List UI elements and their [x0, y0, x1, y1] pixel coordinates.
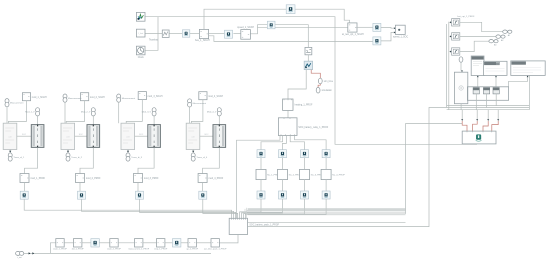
svg-text:Nu_4_PROF: Nu_4_PROF [332, 175, 345, 177]
svg-text:Tmax_di_1: Tmax_di_1 [13, 157, 25, 159]
wire bottom chain segment 3 [99, 242, 110, 244]
unit delay block small [305, 47, 312, 54]
wire measurement oval down [189, 107, 191, 123]
module 1 Tmax oval pair [8, 153, 12, 158]
svg-text:cell: cell [8, 137, 12, 139]
module 3 voltage oval [152, 108, 156, 113]
subsystem speed_1_SOAH [241, 30, 251, 40]
scope block 2 colored [304, 61, 312, 69]
bottom chain block rt_1 [173, 239, 181, 247]
wire input tap to chain [50, 243, 55, 254]
wire lower branch [209, 36, 373, 42]
rate transition block 2 [225, 30, 233, 38]
svg-text:at_rest_cpt_1_SOAH: at_rest_cpt_1_SOAH [342, 33, 364, 36]
wire bottom chain segment 2 [82, 242, 91, 244]
grid rate transition top 3 [301, 150, 309, 158]
wire cell to bottom oval [9, 150, 11, 154]
wire relay to col3 [290, 136, 304, 150]
wire grid col1 teal-top to mid [260, 158, 262, 170]
cell cylinder 2 [483, 88, 489, 94]
wire grid col3 to bundle [244, 199, 305, 218]
wire container to scope panel [495, 77, 497, 87]
cell cylinder 1 [473, 88, 479, 94]
wire clock branch vertical [145, 17, 158, 51]
module 4 battery image block [213, 125, 226, 148]
grid mid block 2 [278, 169, 288, 179]
arrowhead up scope [495, 76, 497, 78]
wire voltage oval down [92, 116, 94, 125]
subsystem bus_1_SOAH [199, 29, 208, 38]
wire pack drop 2 [476, 110, 478, 120]
svg-text:step_1_PROF: step_1_PROF [154, 248, 168, 251]
svg-text:I_bat: I_bat [138, 32, 144, 35]
module 3 cell subsystem [121, 123, 135, 149]
wire module1 to bus bundle [24, 199, 231, 218]
wire battery to module block [138, 147, 154, 173]
sum block speed_1_SOC [395, 25, 405, 34]
wire bundle right 2 [247, 211, 406, 213]
wire right riser to pack [406, 124, 463, 214]
wire source chain [145, 33, 162, 35]
svg-text:mod_1_SOAH: mod_1_SOAH [32, 96, 47, 99]
module 3 top block [138, 92, 146, 100]
wire grid col4 mid to teal-bottom [325, 180, 327, 191]
pack input oval [459, 57, 463, 62]
svg-text:mod_3_PROF: mod_3_PROF [144, 178, 159, 180]
svg-text:mod_2_PROF: mod_2_PROF [86, 178, 101, 180]
goto tag pair 2 [496, 35, 501, 38]
wire cell to battery image [17, 135, 32, 137]
wire bottom chain segment 1 [64, 242, 73, 244]
red hook 2 [473, 121, 478, 131]
wire grid col1 to bundle [240, 199, 261, 218]
subsystem at_rest_cpt_1_SOAH [348, 23, 357, 32]
wire grid col4 to bundle [245, 199, 326, 218]
svg-text:cell: cell [126, 137, 130, 139]
svg-text:out_time_pack_1_PROF: out_time_pack_1_PROF [204, 248, 227, 251]
svg-text:state_1_PROF: state_1_PROF [53, 248, 67, 251]
wire pack drop 4 [497, 110, 499, 120]
wire module block to rate [202, 183, 204, 192]
wire rate to vertical chain [275, 25, 308, 48]
wire grid col3 mid to teal-bottom [304, 180, 306, 191]
grid rate transition top 4 [322, 150, 330, 158]
scope panel block [484, 61, 508, 75]
wire module3 to bus bundle [140, 199, 236, 218]
subsystem SOC_battery_relay_1_PROF [278, 118, 297, 136]
module 4 cell subsystem [186, 123, 200, 149]
cell cylinder 3 [493, 88, 499, 94]
svg-text:mod_3_SOAH: mod_3_SOAH [148, 95, 163, 98]
rate transition block 5 [373, 23, 381, 31]
wire module block to rate [79, 183, 81, 192]
red hook 4 [492, 121, 498, 131]
arrowhead up display [527, 76, 529, 78]
wire module block to rate [137, 183, 139, 192]
wire pack input rail [448, 22, 450, 110]
wire bottom chain segment 5 [143, 242, 157, 244]
module 4 top block [199, 92, 207, 100]
rate transition block 1 [182, 30, 189, 37]
red hook 1 [462, 121, 467, 131]
integrator block 3 [452, 48, 460, 55]
wire voltage oval down [218, 116, 220, 125]
pack bottom rail 1 [447, 105, 530, 107]
svg-text:heating_1_PROF: heating_1_PROF [295, 104, 313, 107]
rate transition block 4 on top wire [286, 5, 295, 14]
wire voltage oval down [153, 116, 155, 125]
wire chain end to bus creator [219, 235, 238, 243]
svg-text:SOC_battery_pack_1_PROF: SOC_battery_pack_1_PROF [249, 224, 279, 227]
svg-text:Mod_2_V: Mod_2_V [81, 112, 91, 114]
wire chain bus block to gain [209, 33, 225, 35]
grid mid block 3 [300, 169, 310, 179]
simulation oval [316, 87, 320, 93]
svg-text:Tmax_di_2: Tmax_di_2 [71, 157, 83, 159]
wire grid col2 mid to teal-bottom [282, 180, 284, 191]
module 2 output block [76, 174, 85, 183]
module 3 Tmax oval pair [126, 153, 130, 158]
wire chain lookup to bus block [190, 33, 200, 35]
clock block [136, 46, 145, 55]
wire integrator2 to goto [460, 35, 496, 37]
svg-text:simulation: simulation [322, 89, 333, 92]
wire relay to col1 [261, 136, 283, 150]
wire rate5 to sum [381, 26, 394, 29]
arrowhead pack drop 3 [487, 119, 489, 121]
goto tag pair 1 [503, 30, 508, 33]
wire chain gain to speed block [233, 33, 240, 35]
grid rate transition bottom 3 [301, 191, 309, 199]
grid mid block 4 [321, 169, 331, 179]
svg-text:bat_cpt_1_PROF: bat_cpt_1_PROF [458, 15, 476, 18]
module 1 battery image block [31, 125, 44, 148]
wire module block to rate [24, 183, 26, 192]
svg-text:del_1_PROF: del_1_PROF [72, 249, 85, 251]
wire measurement oval down [118, 102, 120, 123]
wire battery to module block [80, 147, 93, 173]
display panel block [511, 61, 545, 76]
wire bundle right 0b [248, 208, 406, 210]
pack right rail [528, 75, 530, 109]
wire oval to tall model [460, 62, 462, 70]
wire container to info block [477, 77, 479, 87]
wire bottom chain segment 7 [181, 242, 188, 244]
wire pack drop 1 [461, 110, 463, 120]
wire pack drop 3 [487, 110, 489, 120]
cell container box [467, 87, 508, 101]
module 2 Tmax oval pair [66, 153, 70, 158]
wire grid col3 teal-top to mid [304, 158, 306, 170]
wire cylinder2 down [486, 94, 488, 108]
svg-text:up_1_PROF: up_1_PROF [186, 249, 198, 251]
svg-text:Tmax_di_4: Tmax_di_4 [196, 157, 208, 159]
wire pack input rail 2 [446, 24, 448, 108]
wire cell to battery image [75, 135, 87, 137]
svg-text:cell: cell [66, 137, 70, 139]
goto tag pair 3 [489, 40, 494, 43]
module 3 rate transition [136, 191, 144, 199]
subsystem heating_1_PROF [283, 99, 293, 110]
wire grid col2 teal-top to mid [282, 158, 284, 170]
wire measurement oval down [64, 102, 66, 123]
svg-text:Tsambat: Tsambat [149, 38, 158, 41]
svg-text:Mod_3_V: Mod_3_V [142, 112, 152, 114]
module 4 voltage oval [217, 108, 221, 113]
scope block [136, 12, 145, 21]
module 4 measurement oval pair [188, 99, 192, 104]
module 3 battery image block [148, 125, 161, 148]
wire stub to integrator 2 [449, 35, 451, 37]
wire scope output to feedback loop [145, 17, 477, 145]
module 3 measurement oval pair [117, 94, 121, 99]
wire battery to module block [25, 147, 38, 173]
arrowhead pack drop 1 [461, 119, 463, 121]
arrowhead integrator 3 [450, 51, 452, 53]
svg-text:speed_1_SOAH: speed_1_SOAH [237, 26, 254, 29]
wire branch to rate block [258, 25, 268, 28]
wire grid col4 teal-top to mid [325, 158, 327, 170]
svg-text:Mod_4_V: Mod_4_V [207, 112, 217, 114]
wire integrator1 to goto [460, 22, 503, 31]
wire battery to module block [203, 147, 220, 173]
wire at_rest to rate block 5 [357, 26, 373, 28]
wire container corner to display [509, 77, 528, 87]
wire input port line [24, 252, 211, 254]
bottom chain block out_time_pack_1_PROF [211, 239, 219, 247]
module 1 measurement oval pair [5, 99, 9, 104]
tall model block [454, 72, 467, 104]
wire bottom chain segment 6 [165, 242, 173, 244]
integrator block 2 [452, 33, 460, 40]
bottom chain block del_1_PROF [74, 239, 82, 247]
wire measurement oval down [6, 107, 8, 123]
module 2 top block [81, 93, 89, 101]
wire relay to bus creator [237, 136, 281, 219]
bottom chain block state_2_PROF [110, 239, 118, 247]
module 2 cell subsystem [61, 123, 75, 149]
wire bus block top feedback [204, 9, 350, 29]
svg-text:mod_1_PROF: mod_1_PROF [30, 178, 45, 180]
wire voltage oval down [37, 116, 39, 125]
bus creator SOC_battery_pack_1_PROF [229, 218, 247, 234]
bottom chain block state_1_PROF [56, 239, 64, 247]
module 1 output block [20, 174, 29, 183]
wire bundle right 0a [248, 207, 406, 209]
svg-text:SOC: SOC [22, 134, 27, 136]
bottom chain block mod_current_1_PROF [135, 239, 143, 247]
wire bus out to pack subsystem [248, 108, 447, 227]
grid mid block 1 [256, 169, 266, 179]
wire delay chain vertical [307, 55, 309, 61]
svg-text:Measurement: Measurement [122, 97, 136, 100]
module 2 rate transition [78, 191, 86, 199]
red wire to simulation oval [318, 84, 320, 87]
rate transition block 6 [373, 37, 381, 45]
module 2 measurement oval pair [63, 94, 67, 99]
wire bus out lower [248, 221, 406, 223]
pack bottom rail 3 [447, 109, 530, 111]
wire module top block down [126, 100, 142, 124]
svg-text:Measurement: Measurement [68, 97, 82, 100]
wire cylinder3 down [495, 94, 497, 106]
wire module top block down [8, 101, 26, 124]
svg-text:mod_current_1_PROF: mod_current_1_PROF [128, 248, 150, 251]
wire module4 to bus bundle [203, 199, 238, 218]
rate transition block 3 [267, 21, 275, 29]
module 3 output block [134, 174, 143, 183]
svg-text:state_2_PROF: state_2_PROF [107, 248, 121, 251]
wire cell to battery image [200, 135, 213, 137]
wire speed out up to at_rest [251, 27, 348, 34]
wire stub to integrator 3 [449, 51, 451, 53]
arrowhead integrator 1 [450, 21, 452, 23]
svg-text:bus_1_SOAH: bus_1_SOAH [195, 39, 210, 42]
svg-text:Mod_1_V: Mod_1_V [25, 112, 35, 114]
svg-text:SOC: SOC [79, 134, 84, 136]
arrowhead integrator 2 [450, 35, 452, 37]
grid rate transition bottom 1 [257, 191, 265, 199]
bottom chain block Powergui [91, 239, 99, 247]
wire tall model to bottom rail [460, 104, 462, 110]
info block dark header [471, 56, 484, 76]
grid rate transition top 1 [257, 150, 265, 158]
svg-text:SOC: SOC [204, 134, 209, 136]
module 1 rate transition [20, 191, 28, 199]
wire bundle right 1 [247, 209, 406, 211]
wire module top block down [191, 100, 203, 124]
module 1 top block [22, 93, 30, 101]
svg-text:Clock: Clock [138, 56, 145, 59]
module 4 Tmax oval pair [191, 153, 195, 158]
wire grid col2 to bundle [242, 199, 283, 218]
wire cell to bottom oval [127, 150, 129, 154]
wire relay to col4 [295, 136, 327, 150]
svg-text:Measurement: Measurement [193, 102, 207, 105]
wire cylinder1 down [475, 94, 477, 110]
module 1 cell subsystem [3, 123, 17, 149]
wire bottom chain segment 8 [196, 242, 211, 244]
red hook 3 [483, 121, 488, 131]
svg-text:SOC: SOC [139, 134, 144, 136]
sim_time oval [318, 78, 322, 84]
wire bundle right 3 [247, 213, 406, 215]
arrowhead up info [477, 76, 479, 78]
wire bottom chain segment 4 [118, 242, 134, 244]
constant block [136, 29, 145, 37]
bottom chain block step_1_PROF [157, 239, 165, 247]
arrowhead on input wire [29, 252, 31, 254]
wire module top block down [66, 101, 84, 124]
grid rate transition bottom 4 [322, 191, 330, 199]
SOC calculation block [462, 131, 496, 144]
wire cell to battery image [135, 135, 148, 137]
arrowhead pack drop 2 [476, 119, 478, 121]
red wire to sim_time oval [311, 70, 320, 78]
arrowhead pack drop 4 [497, 119, 499, 121]
wire rate6 to sum [381, 32, 394, 41]
module 2 battery image block [87, 125, 100, 148]
svg-text:sim_time: sim_time [324, 80, 334, 83]
svg-text:mod_4_SOAH: mod_4_SOAH [208, 95, 223, 98]
svg-text:t_out: t_out [17, 256, 22, 259]
arrowhead into tall model [461, 71, 463, 73]
module 4 rate transition [199, 191, 207, 199]
wire grid col1 mid to teal-bottom [260, 180, 262, 191]
svg-text:SOC_battery_relay_1_PROF: SOC_battery_relay_1_PROF [298, 126, 328, 129]
module 1 voltage oval [36, 108, 40, 113]
svg-text:mod_2_SOAH: mod_2_SOAH [90, 96, 105, 99]
wire integrator3 to goto [460, 41, 489, 51]
wire chain Tsambat to lookup [169, 33, 182, 35]
Tsambat block [162, 30, 169, 37]
grid rate transition bottom 2 [279, 191, 287, 199]
wire cell to bottom oval [192, 150, 194, 154]
wire scope2 to heating subsystem [288, 70, 306, 99]
module 2 voltage oval [91, 108, 95, 113]
wire stub to integrator 1 [449, 21, 451, 23]
wire bundle right 4 [248, 214, 406, 216]
svg-text:Tmax_di_3: Tmax_di_3 [131, 157, 143, 159]
wire cell to bottom oval [67, 150, 69, 154]
svg-text:cell: cell [191, 137, 195, 139]
wire relay to col2 [283, 136, 287, 150]
wire heating to relay [287, 110, 289, 117]
svg-text:Measurement: Measurement [10, 102, 24, 105]
svg-text:mod_4_PROF: mod_4_PROF [209, 178, 224, 180]
bottom chain block up_1_PROF [188, 239, 196, 247]
pack bottom rail 2 [447, 107, 530, 109]
svg-text:speed_1_SOC: speed_1_SOC [393, 37, 408, 39]
grid rate transition top 2 [279, 150, 287, 158]
module 4 output block [198, 174, 207, 183]
input port oval pair [16, 251, 21, 255]
wire module2 to bus bundle [82, 199, 234, 218]
